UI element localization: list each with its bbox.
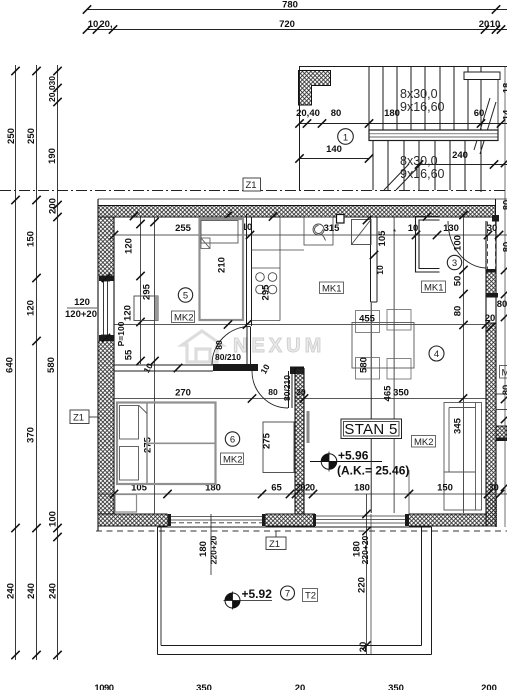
level marker +5.96: [310, 452, 382, 472]
wall room6/living (hatched): [295, 368, 304, 514]
svg-text:80: 80: [268, 387, 278, 397]
vertical dim line x=154: [154, 217, 156, 514]
svg-text:P=100: P=100: [116, 321, 126, 346]
living verticals dim lines: [370, 302, 372, 513]
svg-text:MK2: MK2: [223, 455, 243, 466]
svg-text:MK1: MK1: [424, 283, 444, 294]
Z1 wall label left: [70, 410, 98, 424]
svg-text:20: 20: [295, 683, 306, 690]
svg-text:Z1: Z1: [246, 180, 257, 191]
STAN 5 title: [341, 419, 402, 439]
svg-text:370: 370: [26, 427, 37, 443]
svg-text:Z1: Z1: [73, 413, 84, 424]
right wall hatched block: [487, 272, 497, 293]
T2 label: [303, 589, 318, 602]
svg-text:350: 350: [196, 683, 212, 690]
stairwell left wall line: [299, 66, 301, 190]
terrace left parapet: [157, 527, 159, 655]
upper floor outline above wall: [98, 198, 507, 200]
Z1 label bottom: [266, 531, 286, 550]
svg-text:Z1: Z1: [269, 539, 280, 550]
svg-text:100: 100: [48, 511, 59, 527]
bottom wall hatched segment right: [409, 514, 487, 526]
svg-text:80: 80: [214, 340, 224, 350]
door room5 leaf: [246, 327, 248, 365]
room6 dim 270 line: [114, 398, 288, 400]
svg-text:80/210: 80/210: [215, 352, 241, 362]
svg-text:10: 10: [88, 19, 99, 30]
terrace right wall: [421, 527, 423, 646]
svg-text:120: 120: [74, 297, 90, 308]
stair landing bar: [369, 130, 498, 141]
svg-text:270: 270: [175, 388, 191, 399]
svg-text:120: 120: [123, 305, 134, 321]
entry door opening dashes: [487, 222, 489, 270]
svg-text:315: 315: [324, 223, 341, 234]
left dim chain line 2: [26, 65, 41, 660]
svg-text:60: 60: [474, 108, 485, 119]
svg-text:220: 220: [357, 577, 368, 593]
svg-text:6: 6: [230, 435, 235, 446]
stair treads upper flight: [369, 67, 481, 193]
bottom dim row y=494: [98, 493, 507, 495]
svg-text:30: 30: [487, 223, 498, 234]
svg-text:M: M: [502, 368, 507, 379]
stairwell top outline: [300, 66, 507, 68]
svg-text:20,40: 20,40: [296, 108, 320, 119]
svg-text:180: 180: [384, 108, 400, 119]
left dim chain line 3: [46, 65, 62, 660]
room number 5: [178, 288, 192, 302]
window in left wall: [99, 276, 114, 342]
svg-text:180: 180: [354, 483, 370, 494]
partition room5/kitchen: [246, 214, 248, 326]
svg-text:190: 190: [47, 148, 58, 164]
svg-text:20: 20: [479, 19, 490, 30]
left exterior wall (hatched): [98, 217, 114, 276]
svg-text:240: 240: [452, 150, 468, 161]
svg-text:240: 240: [48, 583, 59, 599]
bed room 5: [200, 219, 244, 320]
left dim chain line 1: [5, 65, 20, 660]
dim line y=398.5: [295, 398, 486, 400]
svg-text:10: 10: [408, 223, 419, 234]
right wall bottom corner (hatched): [487, 497, 497, 526]
bottom wall hatched segment left: [98, 514, 168, 526]
svg-text:7: 7: [285, 589, 290, 600]
top dimension line 780: [83, 0, 507, 14]
wardrobe room5: [134, 296, 158, 321]
vertical dim line x=136 room5: [140, 217, 142, 364]
hall niche U walls: [416, 217, 440, 273]
closet room6: [263, 422, 294, 473]
MK2 label right edge partial: [500, 366, 507, 379]
svg-text:20: 20: [358, 642, 369, 653]
stairwell right verticals: [497, 79, 499, 141]
watermark NEXUM logo: [182, 331, 325, 362]
stair dim 140: [295, 144, 373, 163]
svg-text:14: 14: [502, 109, 507, 120]
terrace vertical dim line right: [366, 494, 368, 655]
svg-text:120: 120: [26, 300, 37, 316]
svg-text:80: 80: [502, 242, 507, 253]
svg-text:640: 640: [5, 357, 16, 373]
bottom wall hatched segment middle: [266, 514, 316, 526]
section dash-dot line: [0, 190, 507, 192]
svg-text:295: 295: [261, 284, 272, 301]
svg-text:80/210: 80/210: [282, 375, 292, 401]
level marker +5.92: [224, 592, 273, 610]
terrace vertical dim line left: [210, 514, 212, 575]
fridge: [352, 220, 372, 245]
stair break line upper right: [474, 98, 490, 150]
svg-text:20: 20: [296, 387, 306, 397]
svg-text:250: 250: [26, 128, 37, 144]
kitchen MK1 label: [320, 282, 344, 295]
svg-text:MK2: MK2: [174, 313, 194, 324]
room number 7: [281, 586, 295, 600]
door room6 arc: [252, 371, 288, 408]
hall dim line x=463: [463, 215, 465, 513]
room number 4: [429, 346, 444, 361]
svg-text:240: 240: [26, 583, 37, 599]
svg-text:250: 250: [6, 128, 17, 144]
living MK2 label: [412, 436, 436, 449]
svg-text:65: 65: [271, 483, 282, 494]
vent square: [337, 215, 345, 224]
svg-text:+5.96: +5.96: [338, 449, 369, 463]
hall MK1 label: [422, 281, 446, 294]
svg-text:455: 455: [359, 314, 376, 325]
svg-text:1: 1: [343, 133, 348, 144]
svg-text:80: 80: [502, 200, 507, 211]
door room6 leaf: [288, 371, 290, 408]
svg-text:8x30,0: 8x30,0: [400, 154, 438, 168]
dashed floor-above outline: [96, 530, 507, 532]
stair break line lower: [384, 164, 409, 190]
svg-text:580: 580: [46, 357, 57, 373]
stair dim line 20,40,80,180,60: [295, 108, 507, 128]
svg-text:(A.K.= 25.46): (A.K.= 25.46): [337, 464, 409, 478]
right wall pilaster jog: [496, 426, 507, 438]
stair lintel window top right: [464, 72, 500, 80]
room6 MK2 label: [221, 453, 244, 466]
radiator gray: [307, 411, 310, 443]
svg-text:10: 10: [375, 265, 385, 275]
svg-text:465: 465: [383, 385, 394, 402]
bed room 6: [117, 403, 216, 485]
svg-text:220+20: 220+20: [360, 535, 370, 564]
svg-text:30: 30: [488, 483, 499, 494]
interior dim line y=235: [114, 234, 507, 236]
svg-text:100: 100: [453, 235, 464, 251]
svg-text:9x16,60: 9x16,60: [400, 167, 445, 181]
svg-text:275: 275: [143, 436, 154, 453]
svg-text:210: 210: [217, 257, 228, 273]
Z1 section box top: [243, 178, 261, 191]
svg-text:200: 200: [481, 683, 497, 690]
svg-text:350: 350: [388, 683, 404, 690]
svg-text:350: 350: [393, 388, 409, 399]
svg-text:780: 780: [282, 0, 298, 11]
svg-text:105: 105: [377, 230, 388, 247]
svg-text:50: 50: [453, 276, 464, 287]
right wall top jamb black: [492, 215, 499, 222]
svg-text:MK1: MK1: [322, 284, 342, 295]
door room5 arc: [212, 327, 250, 365]
svg-text:20,: 20,: [99, 19, 112, 30]
terrace door opening sill: [171, 516, 262, 518]
svg-text:2020: 2020: [295, 483, 314, 494]
svg-text:150: 150: [437, 483, 453, 494]
svg-text:120: 120: [124, 238, 135, 254]
hob counter: [279, 217, 281, 321]
ticks on y=235: [130, 212, 138, 220]
svg-text:STAN 5: STAN 5: [344, 421, 397, 438]
partition kitchen/hall: [370, 217, 372, 302]
living window sill: [313, 514, 316, 526]
svg-text:150: 150: [26, 231, 37, 247]
long dim line y=324.5: [114, 324, 486, 326]
svg-text:255: 255: [175, 223, 192, 234]
sofa: [444, 403, 482, 511]
svg-text:80: 80: [453, 306, 464, 317]
stair treads lower flight: [373, 141, 465, 190]
svg-text:180: 180: [198, 541, 209, 557]
right exterior wall (hatched): [487, 323, 497, 526]
svg-text:9x16,60: 9x16,60: [400, 100, 445, 114]
svg-text:130: 130: [443, 223, 459, 234]
svg-text:3: 3: [452, 258, 457, 269]
svg-text:220+20: 220+20: [209, 535, 219, 564]
hob circles: [256, 273, 277, 294]
hall room number 3: [447, 255, 461, 269]
svg-text:140: 140: [326, 144, 342, 155]
svg-text:345: 345: [453, 417, 464, 434]
stair dim 240: [415, 150, 507, 169]
svg-text:580: 580: [359, 357, 370, 373]
svg-text:18: 18: [502, 83, 507, 94]
svg-text:275: 275: [262, 432, 273, 449]
svg-text:80: 80: [501, 385, 507, 396]
chairs: [356, 310, 412, 380]
svg-text:720: 720: [279, 19, 295, 30]
svg-text:120+20: 120+20: [65, 309, 97, 320]
svg-text:MK2: MK2: [414, 437, 434, 448]
kitchen counter sink section: [304, 217, 333, 245]
kitchen counter line: [252, 249, 305, 251]
svg-text:*: *: [393, 228, 396, 237]
svg-text:8x30,0: 8x30,0: [400, 87, 438, 101]
svg-text:1090: 1090: [94, 683, 113, 690]
svg-text:20,030: 20,030: [47, 76, 57, 102]
top dimension line 720: [83, 19, 507, 34]
terrace bottom parapet: [158, 654, 432, 656]
stair L-shaped wall (hatched): [299, 71, 331, 106]
neighbour lines right: [496, 393, 507, 395]
svg-text:10: 10: [490, 19, 501, 30]
svg-text:200: 200: [48, 198, 59, 214]
room5 MK2 label: [172, 311, 195, 324]
top exterior wall (hatched): [98, 206, 496, 218]
nightstand room6: [115, 495, 137, 513]
svg-text:55: 55: [124, 349, 135, 360]
svg-text:4: 4: [434, 349, 439, 360]
svg-text:5: 5: [183, 291, 188, 302]
terrace top edge: [158, 526, 432, 528]
kitchen sink: [313, 224, 326, 241]
room number 1: [338, 129, 354, 145]
svg-text:+5.92: +5.92: [242, 587, 273, 601]
svg-text:80: 80: [497, 299, 507, 310]
room number 6: [225, 432, 239, 446]
entry door arc: [448, 221, 486, 268]
svg-text:T2: T2: [305, 591, 316, 602]
svg-text:295: 295: [142, 283, 153, 300]
dining table: [352, 323, 414, 369]
svg-text:20: 20: [485, 313, 496, 324]
svg-text:80: 80: [331, 108, 342, 119]
svg-text:240: 240: [6, 583, 17, 599]
wall room5/room6: [114, 364, 213, 366]
